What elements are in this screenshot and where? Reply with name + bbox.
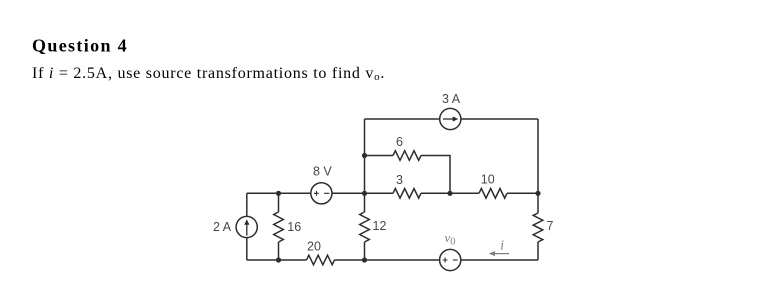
svg-text:3: 3 bbox=[396, 173, 403, 187]
svg-text:3 A: 3 A bbox=[442, 92, 461, 106]
svg-text:7: 7 bbox=[547, 219, 554, 233]
svg-text:6: 6 bbox=[396, 135, 403, 149]
svg-text:8 V: 8 V bbox=[313, 165, 332, 179]
svg-text:If i = 2.5A, use source transf: If i = 2.5A, use source transformations … bbox=[32, 65, 385, 83]
svg-text:10: 10 bbox=[481, 173, 495, 187]
svg-text:i: i bbox=[500, 237, 504, 252]
svg-text:16: 16 bbox=[287, 220, 301, 234]
svg-text:Question 4: Question 4 bbox=[32, 36, 128, 56]
svg-text:2 A: 2 A bbox=[213, 220, 232, 234]
svg-text:v0: v0 bbox=[445, 230, 456, 248]
svg-text:20: 20 bbox=[307, 240, 321, 254]
svg-text:12: 12 bbox=[373, 219, 387, 233]
